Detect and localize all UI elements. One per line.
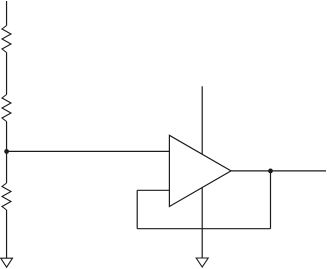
wire: feedback bottom run (137, 228, 270, 230)
ground (center) (196, 258, 208, 267)
wire: feedback left riser (136, 190, 138, 228)
ground (left) (1, 258, 13, 267)
resistor R1 (2, 26, 11, 53)
wire: left rail top segment (6, 1, 8, 26)
wire: node B to right edge output (271, 170, 327, 172)
op-amp U1 (169, 135, 231, 206)
wire: left rail below R3 to ground (6, 210, 8, 258)
resistor R2 (2, 95, 11, 122)
wire: left rail between R1 and R2 (6, 53, 8, 95)
resistor R3 (2, 183, 11, 210)
wire: op-amp bottom stem to ground (201, 186, 203, 258)
wire: top supply stem (201, 86, 203, 156)
node A (junction dot) (4, 149, 9, 154)
wire: left rail between R2 and R3 (through node A) (6, 122, 8, 184)
wire: feedback drop from node B (270, 171, 272, 229)
wire: feedback to op-amp lower input (137, 189, 169, 191)
node B (junction dot) (268, 169, 273, 174)
wire: op-amp output to node B (231, 170, 271, 172)
wire: node A to op-amp input (7, 150, 170, 152)
